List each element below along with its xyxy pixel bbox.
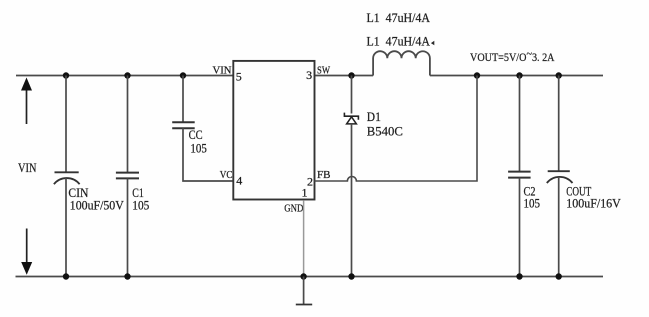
node dot VOUT bbox=[474, 72, 480, 78]
svg-text:VC: VC bbox=[220, 169, 233, 181]
VIN up arrow bbox=[21, 78, 32, 125]
svg-text:1: 1 bbox=[302, 186, 308, 200]
wire FB from pin2 with hop over D1 bbox=[315, 76, 478, 182]
wire inductor right to rail end bbox=[430, 75, 603, 77]
svg-text:L1 47uH/4A: L1 47uH/4A bbox=[367, 33, 431, 48]
top rail left (VIN to IC pin5) bbox=[16, 75, 233, 77]
wire GND pin1 to bottom rail bbox=[303, 200, 305, 276]
svg-text:5: 5 bbox=[236, 69, 242, 83]
node dot C2 top bbox=[516, 72, 522, 78]
capacitor CIN bbox=[54, 76, 80, 277]
svg-text:105: 105 bbox=[524, 196, 541, 211]
bottom rail bbox=[16, 276, 604, 278]
node dot COUT top bbox=[556, 72, 562, 78]
capacitor C1 bbox=[116, 76, 139, 277]
svg-text:100uF/50V: 100uF/50V bbox=[70, 198, 125, 213]
svg-text:D1: D1 bbox=[367, 109, 381, 124]
svg-text:SW: SW bbox=[317, 65, 330, 77]
svg-text:GND: GND bbox=[284, 203, 303, 215]
node dot GND bottom bbox=[300, 273, 306, 279]
svg-text:VOUT=5V/O~3. 2A: VOUT=5V/O~3. 2A bbox=[470, 47, 555, 65]
op-amp U1 (regulator IC box) bbox=[233, 61, 314, 200]
node dot C1 bottom bbox=[124, 273, 130, 279]
node dot SW/D1 bbox=[348, 72, 354, 78]
capacitor COUT bbox=[547, 76, 573, 277]
node dot CIN bottom bbox=[63, 273, 69, 279]
svg-text:VIN: VIN bbox=[213, 65, 232, 77]
svg-text:100uF/16V: 100uF/16V bbox=[566, 196, 621, 211]
node dot CIN top bbox=[63, 72, 69, 78]
node dot C2 bottom bbox=[516, 273, 522, 279]
svg-text:VIN: VIN bbox=[18, 160, 37, 175]
wire SW rail (IC pin3 to inductor) bbox=[315, 75, 374, 77]
VIN down arrow bbox=[21, 229, 32, 275]
svg-text:B540C: B540C bbox=[367, 124, 403, 139]
ground bbox=[296, 277, 312, 305]
svg-text:105: 105 bbox=[132, 198, 149, 213]
diode D1 (schottky) bbox=[344, 76, 358, 277]
svg-text:105: 105 bbox=[190, 141, 207, 156]
svg-text:3: 3 bbox=[306, 68, 312, 82]
wire CC to VC pin4 bbox=[183, 128, 233, 181]
svg-text:FB: FB bbox=[317, 169, 331, 181]
capacitor C2 bbox=[508, 76, 530, 277]
svg-text:L1 47uH/4A: L1 47uH/4A bbox=[367, 10, 431, 25]
node dot C1 top bbox=[124, 72, 130, 78]
stray triangle mark after line 2 bbox=[431, 41, 434, 46]
svg-text:4: 4 bbox=[236, 173, 242, 187]
inductor L1 bbox=[373, 51, 430, 75]
node dot CC top bbox=[180, 72, 186, 78]
svg-text:2: 2 bbox=[307, 175, 313, 189]
node dot D1 bottom bbox=[348, 273, 354, 279]
capacitor CC bbox=[172, 76, 195, 129]
node dot COUT bottom bbox=[556, 273, 562, 279]
